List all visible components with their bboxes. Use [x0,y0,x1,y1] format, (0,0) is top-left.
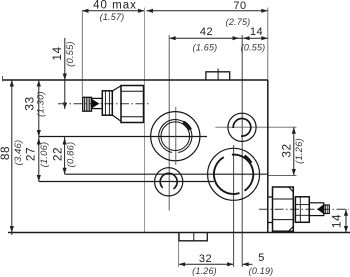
wire dimension line 42 [169,37,242,39]
wire dimension line 14 left-top [64,38,66,109]
svg-text:(1.30): (1.30) [35,91,46,117]
cap [324,205,330,214]
svg-text:70: 70 [233,0,246,12]
arrow 42 right [233,36,240,40]
wire right ext small port centerline y127.2 [215,126,296,128]
svg-text:(3.46): (3.46) [12,140,23,166]
middle port thread blob [245,156,252,163]
big port top-left: outer circle [151,112,200,161]
svg-text:14: 14 [50,46,64,60]
small port inner thread [232,118,251,137]
top tab on block [206,72,230,80]
svg-text:(2.75): (2.75) [226,17,251,27]
wire dimension line 14 top [242,37,267,39]
leader centerline lower-left port y183 [39,181,214,183]
centerline big port vertical x175.8 [175,107,177,165]
svg-text:40 max: 40 max [93,0,137,11]
hex flare [112,86,121,122]
big port inner thread rings [156,117,195,156]
extension line block left face x144.5 full height [144,8,146,233]
svg-text:14: 14 [250,26,263,38]
svg-text:(0.86): (0.86) [65,142,76,168]
extension line block right x268 above block [267,8,269,81]
svg-text:27: 27 [24,147,38,161]
hex body [273,187,294,231]
wire dimension line 27 [38,137,40,182]
leader centerline big port y136.5 [39,136,207,138]
cone [317,204,323,214]
cone [92,99,100,108]
svg-text:(1.26): (1.26) [293,138,304,164]
extension/centerline x242 small port [241,35,243,267]
stem [92,98,103,108]
arrow 70 left [147,9,154,13]
extension/centerline x233.6 middle port [233,145,235,267]
wire dimension line 22 [64,137,66,175]
arrow 40max right [138,9,145,13]
tick left end [2,76,4,82]
svg-text:14: 14 [330,214,344,228]
arrow 70 right [261,9,268,13]
block bottom edge y232 full width [8,232,350,234]
wire block top edge + left extension y80 [3,79,268,81]
small port top-right: outer [228,113,256,141]
svg-text:(0.55): (0.55) [64,41,75,67]
svg-text:(1.26): (1.26) [192,266,217,276]
block right edge x268 [267,80,269,233]
extension x178.6 tab left [178,233,180,268]
wire dimension line 88 [11,80,13,235]
lower-left port inner thread [157,170,181,194]
wire dimension line 33 [38,80,40,137]
extension line valve tip x82 [81,11,83,97]
wire bottom dimension line 32 [179,263,234,265]
stem [309,203,324,216]
svg-text:42: 42 [200,26,213,38]
svg-text:(1.06): (1.06) [38,142,49,168]
leader centerline middle port y174.2 [65,173,268,175]
arrow 42 left [169,36,176,40]
middle port: outer [208,148,260,200]
centerline left valve dash-dot y103.7 [58,103,150,105]
big port thread blob [183,122,190,130]
wire right ext y175.5 [268,175,297,177]
arrow 40max left [82,9,89,13]
svg-text:(0.19): (0.19) [249,266,274,276]
knurled cap [83,97,92,111]
svg-text:5: 5 [258,252,265,264]
svg-text:(1.65): (1.65) [193,43,218,53]
extension line x169 down to lower-left port [168,35,170,211]
svg-text:32: 32 [280,143,294,157]
lower-left port: outer [155,168,183,196]
wire top dimension line 70 [147,10,268,12]
wire far right dim 14 [345,209,347,232]
middle port inner thread [212,153,255,196]
bottom tab / foot [179,233,207,241]
locknut [102,91,112,115]
neck at block face [268,197,273,223]
arrow 14 left [243,36,250,40]
svg-text:22: 22 [51,147,65,161]
wire dimension line 32 right [293,127,295,175]
arrow 14 right [261,36,268,40]
svg-text:(1.57): (1.57) [100,12,125,22]
svg-text:88: 88 [0,146,12,160]
wire bottom dimension line 5 stub [242,263,252,265]
wire top dimension line 40max [82,10,145,12]
centerline right valve dash-dot y208.3 [259,208,349,210]
svg-text:(0.55): (0.55) [241,43,266,53]
hex body [121,86,144,123]
svg-text:32: 32 [199,253,212,265]
nut [295,197,309,223]
